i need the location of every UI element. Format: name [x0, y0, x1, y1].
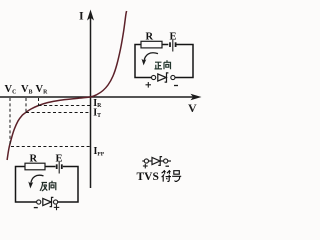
svg-text:TVS: TVS: [137, 171, 159, 183]
svg-text:E: E: [170, 32, 177, 43]
battery E (reverse circuit): [57, 162, 62, 174]
resistor R (forward circuit): [141, 41, 162, 48]
TVS diode symbol: [144, 157, 171, 166]
dashed guide V_B vertical: [25, 98, 27, 113]
polarity + (reverse circuit): [54, 205, 60, 211]
dashed guide V_C vertical: [9, 98, 11, 147]
TVS diode D1 (forward circuit): [152, 73, 175, 82]
polarity + (forward circuit): [146, 82, 152, 88]
svg-text:V: V: [188, 101, 197, 115]
I axis (vertical): [87, 10, 94, 189]
wire loop (reverse circuit): [16, 167, 79, 203]
wire stub left (TVS symbol): [142, 160, 144, 162]
polarity - (forward circuit): [174, 85, 178, 87]
I-V characteristic curve: [7, 11, 127, 160]
label 正向 (forward): [155, 60, 171, 69]
polarity + (TVS symbol): [143, 164, 148, 169]
dashed guide I_T horizontal: [26, 112, 90, 114]
svg-text:E: E: [56, 154, 63, 165]
current-direction arrow (reverse circuit): [28, 175, 43, 188]
current-direction arrow (forward circuit): [142, 53, 159, 66]
svg-text:R: R: [146, 32, 154, 43]
dashed guide V_R vertical: [38, 98, 40, 106]
caption 符号 (symbol) glyphs: [162, 170, 182, 181]
battery E (forward circuit): [170, 40, 176, 52]
label 反向 (reverse): [40, 181, 56, 191]
resistor R (reverse circuit): [25, 163, 45, 170]
polarity - (reverse circuit): [34, 207, 38, 209]
TVS diode D2 (reverse circuit): [37, 197, 58, 206]
dashed guide I_PP horizontal: [11, 146, 90, 148]
polarity - (TVS symbol): [166, 165, 170, 167]
V axis (horizontal): [0, 94, 202, 100]
svg-text:I: I: [79, 9, 84, 23]
wire loop (forward circuit): [135, 45, 193, 78]
svg-text:R: R: [30, 154, 38, 165]
dashed guide I_R horizontal: [39, 105, 91, 107]
